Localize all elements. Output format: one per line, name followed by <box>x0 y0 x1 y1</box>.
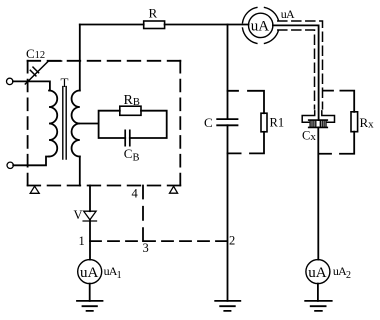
svg-text:2: 2 <box>229 234 235 248</box>
resistor R1 <box>261 113 267 132</box>
wire main C branch vertical <box>227 25 229 301</box>
terminal input top <box>7 78 13 84</box>
svg-text:R: R <box>149 6 158 21</box>
ground under uA2 <box>305 301 332 311</box>
screen ground triangle right <box>170 186 178 193</box>
svg-text:uA1: uA1 <box>104 264 122 281</box>
shield box dashed <box>28 61 181 186</box>
capacitor C12 <box>25 61 61 84</box>
diode V stem <box>89 186 91 212</box>
wire secondary bottom lead <box>79 157 81 186</box>
wire Cx down to uA2 <box>317 127 319 259</box>
RB CB parallel loop wires <box>99 111 167 138</box>
wire input bottom <box>13 157 49 166</box>
wire secondary middle tap <box>80 123 99 125</box>
svg-text:R1: R1 <box>270 116 285 130</box>
transformer T secondary winding <box>72 91 80 157</box>
svg-text:Rx: Rx <box>360 115 375 131</box>
link wire node1 to node2 dashed <box>90 240 227 242</box>
svg-text:1: 1 <box>79 234 85 248</box>
terminal input bottom <box>7 162 13 168</box>
diode V <box>83 211 96 221</box>
svg-text:C: C <box>204 115 213 130</box>
svg-text:uA2: uA2 <box>333 264 351 281</box>
svg-text:uA: uA <box>308 265 327 281</box>
ammeter uA2 <box>306 260 330 284</box>
R1 link wire bottom (with gap) <box>228 132 265 154</box>
capacitor Cx specimen block <box>309 120 328 127</box>
guard ring around uA meter (dashed circle arcs) <box>243 7 279 43</box>
ammeter uA top <box>249 13 273 37</box>
wire diode to node 1 and uA1 <box>89 220 91 260</box>
ground under uA1 <box>77 301 103 311</box>
R1 link wire top (with gap) <box>228 91 265 113</box>
svg-text:uA: uA <box>80 265 99 281</box>
svg-text:CB: CB <box>124 146 140 163</box>
link wire node4 to node3 dashed <box>142 186 144 242</box>
Rx link wire top (with gap) <box>323 91 354 112</box>
capacitor CB <box>125 130 130 145</box>
wire top to resistor R <box>80 24 144 26</box>
wire uA2 to ground <box>317 284 319 301</box>
svg-text:3: 3 <box>143 241 149 255</box>
transformer core <box>63 87 66 159</box>
wire secondary top lead <box>79 25 81 91</box>
svg-text:uA: uA <box>251 19 269 35</box>
svg-text:RB: RB <box>124 93 140 108</box>
resistor R <box>144 21 165 29</box>
wire input top <box>13 81 50 90</box>
ground main (C branch) <box>215 301 240 311</box>
Rx link wire bottom (with gap) <box>319 132 355 154</box>
svg-text:T: T <box>61 75 69 90</box>
svg-text:C12: C12 <box>26 46 45 61</box>
wire uA1 to ground <box>89 284 91 301</box>
resistor Rx <box>351 112 358 132</box>
screen ground triangle left <box>30 186 39 193</box>
capacitor C <box>217 119 237 125</box>
shielded cable shield dashed <box>278 21 323 109</box>
resistor RB <box>120 106 141 115</box>
wire R to meter uA <box>165 24 249 26</box>
ammeter uA1 <box>78 260 102 284</box>
Cx guard electrode right <box>322 111 335 122</box>
svg-text:uA: uA <box>281 7 295 21</box>
transformer T primary winding <box>49 91 57 157</box>
svg-text:4: 4 <box>132 187 139 201</box>
svg-text:Cx: Cx <box>302 128 316 143</box>
Cx guard electrode left <box>302 111 315 122</box>
svg-text:V: V <box>74 208 83 222</box>
shielded cable center conductor <box>273 25 319 120</box>
